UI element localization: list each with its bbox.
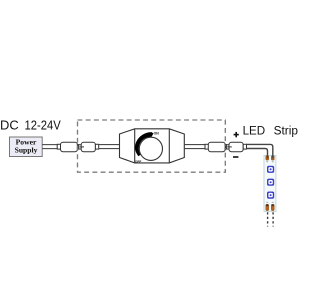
connector J2 male (to dimmer) (79, 142, 99, 151)
LED strip body (264, 155, 276, 211)
svg-text:LED: LED (243, 125, 266, 137)
svg-text:OFF: OFF (135, 160, 141, 164)
wire pair: connector J2 to dimmer (99, 145, 120, 149)
solder joint tick left (266, 160, 268, 163)
LED D2 (267, 179, 274, 186)
solder joint tick bottom-right (272, 201, 274, 204)
solder pad bottom left (266, 204, 269, 210)
svg-text:Strip: Strip (274, 125, 298, 137)
solder pad top right (271, 156, 274, 160)
power supply PS1 (10, 137, 43, 157)
hookup wire - to left pad (246, 149, 267, 159)
dimmer U1 body (120, 129, 185, 163)
label DC 12-24V (0, 118, 61, 132)
dashed continuation line left (267, 212, 269, 226)
wire pair: power supply to connector J1 (42, 145, 57, 149)
connector J3 female (from dimmer) (205, 142, 227, 151)
dashed enclosure box (78, 120, 226, 172)
connector J1 female (from power supply) (57, 142, 79, 151)
solder joint tick bottom-left (266, 201, 268, 204)
solder pad bottom right (271, 204, 274, 210)
dimmer knob (139, 137, 162, 160)
LED D3 (267, 192, 274, 199)
svg-text:DC: DC (0, 118, 19, 132)
label + (positive) (234, 132, 239, 137)
solder joint tick right (272, 160, 274, 163)
svg-text:12-24V: 12-24V (25, 118, 62, 132)
dashed continuation line right (272, 212, 274, 226)
rotation arrow arc (135, 132, 154, 156)
connector J4 male (to LED strip) (226, 142, 246, 151)
solder pad top left (266, 156, 269, 160)
svg-text:Supply: Supply (15, 145, 38, 154)
label - (negative) (233, 156, 238, 158)
LED D1 (267, 166, 274, 173)
svg-text:ON: ON (154, 132, 160, 136)
hookup wire + to right pad (246, 144, 272, 158)
label LED Strip (243, 125, 298, 137)
wire pair: dimmer to connector J3 (184, 145, 205, 149)
